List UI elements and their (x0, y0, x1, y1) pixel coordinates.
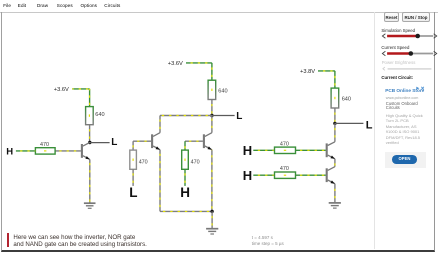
wire R2 to Q1 base (55, 150, 81, 152)
node label H (NAND input A) (243, 143, 252, 158)
wire Q3 emitter down (211, 150, 213, 212)
wire from +3.8V to resistor R6 top (318, 71, 335, 88)
svg-text:470: 470 (280, 141, 289, 147)
current speed slider (382, 51, 436, 56)
wire node to label L (2) (212, 115, 235, 117)
power brightness slider (disabled) (383, 67, 432, 70)
resistor R7 470 (275, 147, 296, 153)
node label L (output) (111, 137, 117, 148)
Power Brightness label (disabled) (382, 60, 416, 65)
junction node at Q1 collector (88, 141, 91, 144)
wire node to Q4 collector (334, 123, 336, 141)
node label L (NAND output) (366, 119, 373, 131)
svg-text:H: H (243, 143, 252, 158)
wire Q2 emitter down (159, 150, 161, 212)
wire R5 bottom to label H (184, 169, 186, 186)
ground G2 (206, 229, 218, 234)
value label 470 (R5) (191, 160, 200, 166)
wire Q1 emitter to ground (89, 159, 91, 202)
simulation speed slider (382, 34, 436, 39)
svg-text:+3.8V: +3.8V (300, 69, 315, 75)
junction node NOR output (210, 114, 213, 117)
wire collector rail to Q2 (160, 116, 212, 133)
svg-text:+3.6V: +3.6V (168, 61, 183, 67)
Reset button (384, 12, 399, 21)
node label H (input) (6, 147, 13, 158)
svg-text:L: L (111, 137, 117, 148)
wire R6 bottom to node L3 (334, 108, 336, 123)
ad url line (386, 96, 419, 100)
wire node to Q3 collector (211, 116, 213, 133)
svg-text:470: 470 (280, 166, 289, 172)
value label 470 (R4) (139, 160, 148, 166)
wire R5 top to Q3 base (185, 141, 203, 150)
svg-text:640: 640 (95, 112, 104, 118)
wire R8 to Q5 base (296, 174, 326, 176)
resistor R6 640 (331, 88, 339, 108)
svg-text:470: 470 (40, 142, 49, 148)
wire from +3.6V to resistor R1 top (72, 89, 89, 107)
wire emitter rail to junction (160, 210, 212, 212)
svg-text:H: H (6, 147, 13, 158)
resistor R2 470 (35, 148, 55, 154)
right panel (0, 0, 438, 1)
svg-text:640: 640 (218, 89, 227, 95)
svg-text:470: 470 (191, 160, 200, 166)
voltage source label +3.8V (300, 69, 315, 75)
ad button strip (385, 152, 426, 168)
value label 640 (R3) (218, 89, 227, 95)
wire R4 bottom to label L (132, 169, 134, 186)
resistor R5 470 (182, 150, 189, 169)
voltage source label +3.6V (54, 87, 69, 93)
resistor R4 470 (130, 150, 137, 169)
junction node emitter rail (210, 210, 213, 213)
transistor Q1 (82, 142, 90, 159)
Current Speed label (381, 45, 409, 50)
svg-text:H: H (243, 168, 252, 183)
node label L (NOR output) (236, 111, 242, 122)
RUN/Stop button (402, 12, 430, 21)
wire from +3.6V to resistor R3 top (186, 63, 212, 80)
wire R3 bottom to node L2 (211, 100, 213, 116)
Simulation Speed label (381, 28, 415, 33)
resistor R3 640 (208, 80, 216, 99)
canvas/panel divider (374, 12, 375, 249)
wire node to label L (90, 142, 110, 144)
junction node NAND output (333, 122, 336, 125)
node label H (NAND input B) (243, 168, 252, 183)
ground G3 (329, 203, 341, 208)
description red bar (7, 233, 10, 247)
svg-text:470: 470 (139, 160, 148, 166)
svg-text:L: L (236, 111, 242, 122)
wire R7 to Q4 base (296, 149, 326, 151)
wire input H to R2 (16, 150, 36, 152)
transistor Q4 (327, 142, 335, 159)
value label 640 (R6) (342, 97, 351, 103)
svg-text:L: L (366, 119, 373, 131)
wire R4 top to Q2 base (133, 141, 151, 150)
wire input H to R8 (253, 174, 274, 176)
ad headline link (385, 88, 424, 93)
ad OPEN button (392, 155, 417, 164)
node label L (NOR input A) (129, 185, 137, 200)
value label 470 (R7) (280, 141, 289, 147)
resistor R8 470 (275, 172, 296, 178)
wire Q4 emitter to Q5 collector (334, 159, 336, 167)
svg-text:H: H (180, 185, 190, 200)
svg-text:640: 640 (342, 97, 351, 103)
ad description (386, 113, 423, 146)
adchoices icon (416, 87, 424, 90)
transistor Q5 (327, 167, 335, 184)
description text (13, 234, 146, 249)
svg-text:+3.6V: +3.6V (54, 87, 69, 93)
voltage source label +3.6V (2) (168, 61, 183, 67)
wire junction to ground G2 (211, 211, 213, 228)
info text time (252, 235, 284, 246)
value label 470 (R2) (40, 142, 49, 148)
ground G1 (84, 203, 96, 208)
node label H (NOR input B) (180, 185, 190, 200)
transistor Q2 (152, 133, 160, 150)
wire R1 bottom to node L1 (89, 125, 91, 143)
wire Q5 emitter to ground G3 (334, 184, 336, 203)
menu bar (0, 0, 438, 13)
value label 470 (R8) (280, 166, 289, 172)
Current Circuit label (381, 75, 413, 80)
wire input H to R7 (253, 149, 274, 151)
resistor R1 640 (86, 107, 94, 125)
svg-text:L: L (129, 185, 137, 200)
transistor Q3 (204, 133, 212, 150)
description area (0, 0, 438, 1)
wire node to label L (3) (335, 122, 364, 124)
ad subtitle (386, 102, 418, 111)
value label 640 (R1) (95, 112, 104, 118)
